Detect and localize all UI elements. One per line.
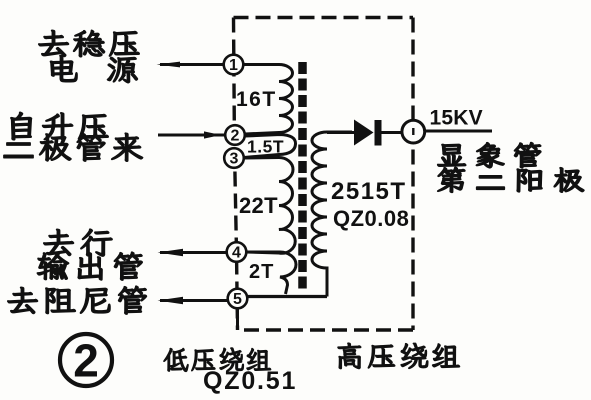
wire: terminal 5 to damper tube (arrow left) [158,297,229,304]
svg-text:2: 2 [73,335,99,387]
svg-text:2: 2 [231,128,240,145]
terminal node: HV output (15KV) [402,120,425,143]
winding section 2T (terminal 4 to 5) [246,252,296,294]
wire: from boost diode into terminal 2 (arrow right) [158,131,225,138]
terminal node 2 [225,125,245,145]
svg-text:2T: 2T [249,261,274,283]
svg-text:1.5T: 1.5T [247,137,284,157]
label: to horizontal output tube (去行输出管) [37,229,142,280]
label: high-voltage winding (高压绕组) [338,343,460,369]
label: from boost diode (自升压二极管来) [4,112,143,161]
wire: bottom common (terminal 5 to both winding ends) [247,295,327,298]
label: CRT (显象管) [438,143,541,168]
transformer core (thick dashed bar) [298,62,307,291]
diode (HV rectifier) [327,120,402,146]
wire: HV output lead to CRT anode [425,130,492,133]
svg-text:3: 3 [230,151,239,168]
winding loop 1.5T (terminal 2 to 3) [244,135,296,158]
winding section 16T (terminal 1 to 2) [243,65,293,135]
svg-text:15KV: 15KV [430,107,483,130]
wire: terminal 4 to horiz output tube (arrow left) [158,249,228,256]
transformer enclosure (dashed box) [234,18,414,331]
svg-text:4: 4 [232,245,241,262]
svg-text:QZ0.08: QZ0.08 [333,206,409,231]
svg-text:2515T: 2515T [331,178,407,205]
terminal node 1 [224,55,244,75]
figure number 2 (circled) [60,334,112,387]
label: low-voltage winding (低压绕组) [164,348,271,372]
svg-text:22T: 22T [239,193,278,218]
winding section 22T (terminal 3 to 4) [244,158,295,254]
high-voltage winding 2515T [312,132,352,297]
terminal node 3 [224,148,244,168]
wire: terminal 1 to regulated supply (arrow left) [157,62,225,68]
wire: stub below terminal 5 [236,308,239,330]
svg-text:QZ0.51: QZ0.51 [203,367,297,395]
label: to regulated power supply (去稳压电源) [39,30,139,82]
svg-text:16T: 16T [236,88,277,111]
svg-text:5: 5 [233,291,242,308]
label: to damper tube (去阻尼管) [8,286,147,314]
label: second anode (第二阳极) [438,167,584,192]
terminal node 5 [228,289,248,309]
terminal node 4 [227,242,247,262]
svg-text:1: 1 [229,57,238,74]
